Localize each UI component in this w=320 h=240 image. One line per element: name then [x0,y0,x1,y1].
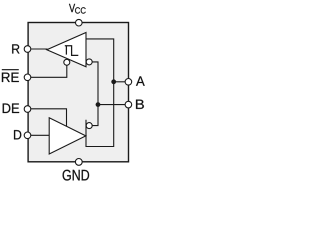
wire D input [28,134,49,136]
label GND [63,170,90,181]
wire net A: receiver in+, vertical bus, driver out+ [86,39,114,147]
wire B stub to pin B [98,104,128,106]
label V [69,4,75,12]
pin R terminal [24,46,31,53]
pin GND terminal [75,159,82,166]
junction dot net A [111,79,116,84]
wire /RE to receiver enable bubble [28,65,67,77]
pin A terminal [125,79,132,86]
hysteresis symbol inside receiver [65,46,79,56]
wire A stub to pin A [114,81,129,83]
driver inverting output bubble (B) [86,123,92,129]
junction dot net B [96,102,101,107]
label RE [2,73,19,82]
op-amp receiver triangle (points left) [47,33,86,67]
label DE [3,104,19,114]
label D [14,130,21,139]
wire R output [29,48,48,50]
pin B terminal [125,101,132,108]
receiver inverting input bubble (B) [86,59,92,65]
label RE overline [2,69,19,71]
pin DE terminal [24,106,31,113]
pin D terminal [24,132,31,139]
IC body box [28,23,128,162]
receiver enable bubble (RE) [64,59,70,65]
label CC [75,7,86,13]
label B [136,100,144,109]
label A [136,76,145,85]
op-amp driver triangle (points right) [49,118,86,154]
wire DE to driver enable [28,109,67,127]
wire net B: receiver in- bubble to vertical, down to driver out- bubble [92,62,98,126]
label R [12,44,19,53]
pin Vcc terminal [76,19,83,26]
pin /RE terminal [24,74,31,81]
